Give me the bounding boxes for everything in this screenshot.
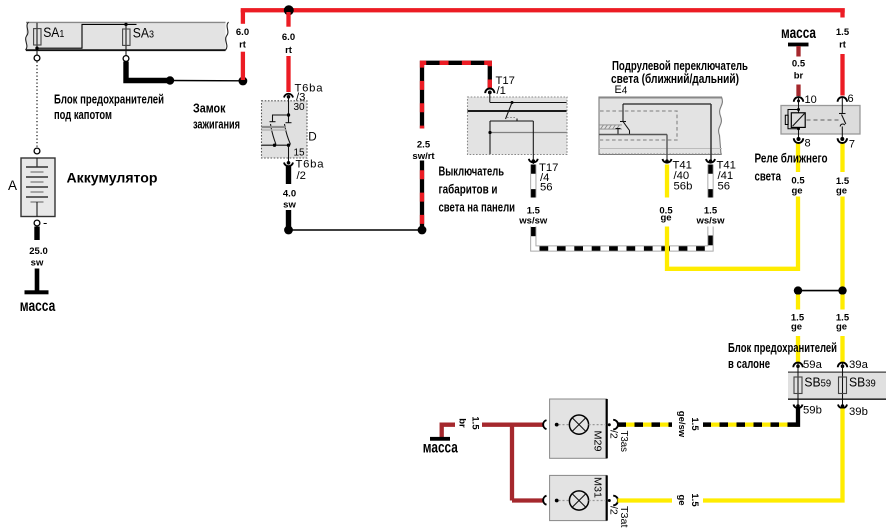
- svg-text:rt: rt: [285, 45, 293, 56]
- svg-text:ge/sw: ge/sw: [676, 411, 687, 438]
- svg-text:T3at: T3at: [618, 506, 630, 528]
- svg-text:2.5: 2.5: [417, 140, 431, 151]
- svg-text:ge: ge: [836, 322, 847, 333]
- svg-text:7: 7: [849, 138, 855, 150]
- svg-text:39a: 39a: [849, 359, 869, 371]
- svg-text:1.5: 1.5: [689, 493, 700, 507]
- svg-text:габаритов и: габаритов и: [439, 182, 498, 197]
- svg-text:59a: 59a: [803, 359, 823, 371]
- svg-text:Блок предохранителей: Блок предохранителей: [728, 340, 837, 355]
- svg-text:25.0: 25.0: [29, 246, 48, 257]
- svg-text:rt: rt: [239, 40, 247, 51]
- svg-text:Аккумулятор: Аккумулятор: [67, 170, 158, 186]
- svg-text:1.5: 1.5: [836, 27, 850, 38]
- svg-text:ge: ge: [791, 185, 802, 196]
- svg-text:масса: масса: [781, 25, 816, 42]
- svg-text:света на панели: света на панели: [439, 200, 516, 215]
- svg-text:света (ближний/дальний): света (ближний/дальний): [611, 71, 739, 86]
- svg-text:Замок: Замок: [193, 101, 226, 116]
- svg-text:Выключатель: Выключатель: [439, 164, 505, 179]
- svg-text:T3as: T3as: [618, 431, 630, 453]
- svg-text:sw: sw: [31, 258, 44, 269]
- svg-text:6.0: 6.0: [282, 32, 295, 43]
- svg-text:br: br: [457, 418, 468, 428]
- svg-text:T6ba: T6ba: [296, 159, 325, 171]
- svg-text:E4: E4: [615, 84, 628, 96]
- svg-text:A: A: [8, 178, 17, 193]
- svg-text:10: 10: [805, 94, 817, 106]
- svg-text:зажигания: зажигания: [193, 117, 240, 132]
- svg-text:D: D: [308, 130, 316, 143]
- svg-text:ge: ge: [676, 494, 687, 505]
- svg-text:1.5: 1.5: [689, 417, 700, 431]
- svg-text:ws/sw: ws/sw: [518, 215, 548, 226]
- svg-text:sw/rt: sw/rt: [412, 151, 435, 162]
- svg-text:6: 6: [848, 93, 854, 105]
- svg-text:56: 56: [540, 182, 553, 194]
- svg-text:в салоне: в салоне: [728, 356, 770, 371]
- svg-text:/2: /2: [608, 506, 620, 515]
- svg-text:8: 8: [805, 138, 811, 150]
- svg-text:масса: масса: [423, 440, 458, 457]
- svg-text:Реле ближнего: Реле ближнего: [755, 151, 828, 166]
- svg-text:/2: /2: [297, 170, 306, 182]
- svg-text:0.5: 0.5: [792, 59, 806, 70]
- svg-text:ge: ge: [836, 185, 847, 196]
- svg-text:59b: 59b: [803, 405, 822, 417]
- svg-text:56b: 56b: [674, 181, 693, 193]
- svg-text:/3: /3: [296, 92, 305, 104]
- svg-text:sw: sw: [283, 200, 296, 211]
- svg-text:/2: /2: [608, 430, 620, 439]
- svg-text:br: br: [794, 71, 804, 82]
- svg-text:ge: ge: [791, 322, 802, 333]
- svg-text:света: света: [755, 169, 782, 184]
- svg-text:1.5: 1.5: [470, 416, 481, 430]
- svg-text:30: 30: [294, 102, 306, 113]
- svg-text:ge: ge: [660, 213, 671, 224]
- svg-text:6.0: 6.0: [236, 27, 249, 38]
- svg-text:4.0: 4.0: [283, 189, 296, 200]
- svg-text:M31: M31: [592, 477, 604, 498]
- svg-text:ws/sw: ws/sw: [696, 215, 726, 226]
- svg-text:M29: M29: [592, 431, 604, 452]
- svg-text:Блок предохранителей: Блок предохранителей: [54, 92, 164, 107]
- svg-text:масса: масса: [20, 298, 56, 315]
- svg-text:под капотом: под капотом: [54, 107, 112, 122]
- svg-text:39b: 39b: [849, 406, 868, 418]
- svg-text:rt: rt: [839, 40, 847, 51]
- svg-text:56: 56: [718, 181, 731, 193]
- svg-text:15: 15: [294, 148, 306, 159]
- svg-text:/1: /1: [497, 85, 506, 97]
- svg-text:-: -: [43, 215, 47, 230]
